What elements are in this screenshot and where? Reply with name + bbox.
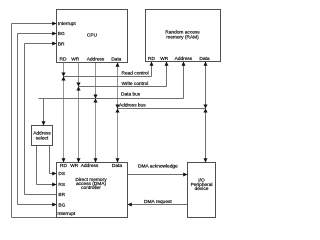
svg-text:BG: BG [58, 31, 65, 37]
svg-text:WR: WR [70, 163, 79, 169]
svg-text:Address bus: Address bus [119, 103, 146, 109]
svg-text:Read control: Read control [122, 71, 149, 77]
svg-text:Data: Data [112, 163, 122, 169]
svg-text:Write control: Write control [122, 81, 149, 87]
svg-text:BR: BR [58, 192, 65, 198]
svg-text:RD: RD [148, 56, 155, 62]
svg-text:DMA request: DMA request [144, 199, 172, 205]
svg-text:controller: controller [81, 185, 101, 191]
svg-text:CPU: CPU [87, 32, 98, 38]
svg-text:Interrupt: Interrupt [57, 211, 76, 217]
svg-text:WR: WR [160, 56, 169, 62]
svg-text:Address: Address [175, 56, 193, 62]
svg-text:DMA acknowledge: DMA acknowledge [138, 164, 178, 170]
svg-text:Data: Data [199, 56, 209, 62]
svg-text:RD: RD [60, 163, 67, 169]
svg-text:memory (RAM): memory (RAM) [166, 34, 199, 40]
svg-text:WR: WR [71, 56, 80, 62]
svg-text:Address: Address [81, 163, 99, 169]
svg-text:Data: Data [111, 56, 121, 62]
svg-text:BR: BR [58, 41, 65, 47]
svg-text:Interrupt: Interrupt [58, 21, 77, 27]
svg-text:RS: RS [58, 182, 65, 188]
svg-text:Address: Address [87, 56, 105, 62]
svg-text:device: device [195, 186, 209, 192]
svg-text:DS: DS [58, 171, 65, 177]
svg-text:select: select [36, 135, 49, 141]
svg-text:Data bus: Data bus [121, 92, 141, 98]
svg-text:RD: RD [60, 56, 67, 62]
svg-text:BG: BG [58, 202, 65, 208]
